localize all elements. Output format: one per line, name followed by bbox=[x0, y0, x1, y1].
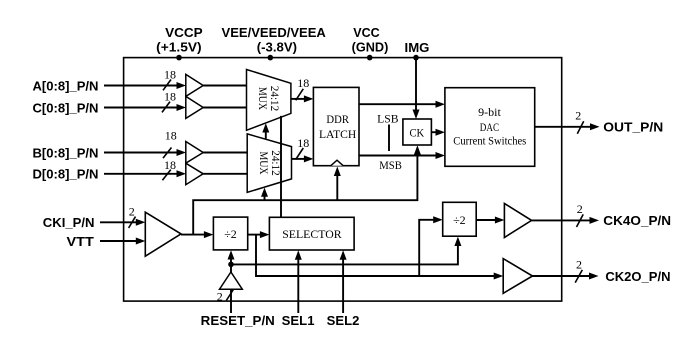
buffer B bbox=[186, 142, 203, 164]
svg-text:SEL1: SEL1 bbox=[282, 313, 315, 328]
wire reset input stub bbox=[230, 289, 232, 313]
DAC block 9-bit DAC Current Switches bbox=[445, 88, 535, 167]
svg-text:D[0:8]_P/N: D[0:8]_P/N bbox=[33, 167, 99, 182]
buffer U7 reset input bbox=[220, 264, 243, 289]
svg-text:SEL2: SEL2 bbox=[327, 313, 360, 328]
svg-text:÷2: ÷2 bbox=[224, 227, 237, 241]
wire CK to DAC bbox=[431, 129, 445, 136]
block CK bbox=[403, 119, 432, 145]
wire IMG vertical to CK clock input bbox=[413, 58, 420, 119]
svg-text:MUX: MUX bbox=[257, 152, 271, 175]
svg-text:2: 2 bbox=[577, 202, 583, 216]
svg-text:(+1.5V): (+1.5V) bbox=[156, 39, 202, 54]
wire DDR latch clock arrow bbox=[334, 167, 341, 201]
wire input D bbox=[104, 170, 186, 177]
wire LSB bus DDR to DAC bbox=[359, 101, 445, 108]
selector block SELECTOR bbox=[269, 217, 354, 250]
svg-text:VCC: VCC bbox=[353, 25, 380, 40]
mux U2 24:12 MUX bbox=[247, 134, 291, 193]
wire div2A to SELECTOR bbox=[248, 231, 270, 238]
wire MUX1 output bus to DDR latch bbox=[291, 95, 314, 102]
svg-text:9-bit: 9-bit bbox=[478, 105, 501, 119]
node VCCP supply dot bbox=[176, 55, 182, 61]
node VCC supply dot bbox=[367, 55, 373, 61]
node IMG dot on rail bbox=[413, 55, 419, 61]
mux U1 24:12 MUX bbox=[247, 70, 291, 131]
wire CK4O output bbox=[532, 217, 599, 224]
wire MUX2 select (from clock line) bbox=[261, 188, 268, 201]
svg-text:Current Switches: Current Switches bbox=[453, 134, 526, 148]
wire div2A branch down to CK2O line bbox=[256, 235, 495, 276]
wire arrow into CK2O buffer bbox=[494, 273, 504, 280]
wire arrow into div2 B bbox=[433, 216, 443, 223]
wire MUX2 output bus to DDR latch bbox=[292, 155, 314, 162]
svg-text:CK: CK bbox=[410, 125, 425, 139]
svg-text:18: 18 bbox=[165, 129, 177, 143]
bus slash CK4O 2 bbox=[577, 202, 584, 227]
bus slash MUX1 out 18 bbox=[296, 76, 310, 100]
svg-text:2: 2 bbox=[575, 109, 581, 123]
wire input B bbox=[104, 149, 186, 156]
svg-text:18: 18 bbox=[297, 136, 309, 150]
svg-text:2: 2 bbox=[576, 258, 582, 272]
wire arrow into CK bottom bbox=[414, 145, 421, 155]
label VEE/VEED/VEEA bbox=[222, 25, 327, 54]
divider block div2 A bbox=[213, 217, 247, 250]
bus slash A with width 18 bbox=[163, 68, 176, 91]
svg-text:VEE/VEED/VEEA: VEE/VEED/VEEA bbox=[222, 25, 327, 40]
wire branch up to div2 B bbox=[419, 220, 434, 276]
svg-text:(GND): (GND) bbox=[352, 39, 389, 54]
buffer U5 CK4O output bbox=[504, 203, 531, 237]
bus slash CKI 2 bbox=[129, 204, 136, 228]
svg-text:DDR: DDR bbox=[326, 112, 349, 126]
buffer A bbox=[186, 74, 203, 96]
divider block div2 B bbox=[443, 202, 477, 236]
svg-text:IMG: IMG bbox=[405, 40, 430, 55]
wire CK2O output bbox=[533, 273, 599, 280]
wire buffer A to MUX1 bbox=[203, 85, 247, 87]
wire reset to div2B bbox=[231, 237, 461, 265]
svg-text:A[0:8]_P/N: A[0:8]_P/N bbox=[33, 78, 99, 93]
bus slash B with width 18 bbox=[163, 129, 177, 159]
svg-text:CK4O_P/N: CK4O_P/N bbox=[603, 213, 671, 228]
divider tick between LSB and MSB bbox=[388, 125, 390, 152]
wire MUX1 select (from clock line, behind MUX2) bbox=[262, 123, 269, 139]
wire input CKI bbox=[100, 219, 145, 226]
svg-text:DAC: DAC bbox=[480, 120, 499, 134]
svg-text:(-3.8V): (-3.8V) bbox=[257, 39, 297, 54]
svg-text:18: 18 bbox=[164, 68, 176, 82]
buffer U4 clock input bbox=[145, 212, 181, 256]
wire buffer B to MUX2 bbox=[203, 152, 247, 154]
wire input C bbox=[104, 104, 186, 111]
node VEE supply dot bbox=[268, 55, 274, 61]
svg-text:÷2: ÷2 bbox=[453, 213, 466, 227]
bus slash C with width 18 bbox=[162, 90, 176, 113]
wire SEL1 input bbox=[295, 250, 302, 313]
label VCCP bbox=[156, 25, 203, 54]
bus slash D with width 18 bbox=[162, 158, 176, 180]
svg-text:CK2O_P/N: CK2O_P/N bbox=[605, 269, 670, 284]
svg-text:C[0:8]_P/N: C[0:8]_P/N bbox=[33, 100, 99, 115]
wire OUT_P/N output bbox=[535, 123, 600, 130]
wire buffer C to MUX1 bbox=[203, 107, 247, 109]
buffer C bbox=[186, 96, 203, 118]
svg-text:OUT_P/N: OUT_P/N bbox=[603, 120, 663, 135]
wire div2B to CK4O buffer bbox=[476, 217, 504, 224]
svg-text:18: 18 bbox=[297, 76, 309, 90]
bus slash RESET 2 bbox=[217, 289, 234, 303]
svg-text:MSB: MSB bbox=[379, 158, 402, 172]
wire buffer D to MUX2 bbox=[203, 173, 247, 175]
svg-text:LATCH: LATCH bbox=[319, 127, 357, 141]
svg-text:B[0:8]_P/N: B[0:8]_P/N bbox=[33, 146, 99, 161]
svg-text:RESET_P/N: RESET_P/N bbox=[201, 313, 275, 328]
svg-text:LSB: LSB bbox=[377, 112, 398, 126]
node reset junction dot bbox=[228, 262, 234, 268]
wire clock buffer to divider bbox=[181, 231, 213, 238]
svg-text:2: 2 bbox=[129, 204, 135, 218]
svg-text:VTT: VTT bbox=[67, 234, 94, 249]
wire reset to div2A bbox=[228, 250, 235, 264]
svg-text:MUX: MUX bbox=[256, 87, 270, 110]
latch U3 DDR LATCH bbox=[313, 87, 359, 165]
svg-text:VCCP: VCCP bbox=[165, 25, 203, 40]
bus slash OUT 2 bbox=[575, 109, 583, 134]
buffer U6 CK2O output bbox=[503, 259, 532, 294]
svg-text:2: 2 bbox=[217, 289, 223, 303]
wire clock branch up bbox=[193, 153, 417, 235]
outer block boundary bbox=[124, 58, 562, 302]
buffer D bbox=[186, 163, 203, 185]
svg-text:18: 18 bbox=[164, 90, 176, 104]
svg-text:CKI_P/N: CKI_P/N bbox=[43, 215, 95, 230]
bus slash MUX2 out 18 bbox=[296, 136, 310, 160]
label VCC (GND) bbox=[352, 25, 389, 54]
wire input A bbox=[104, 82, 186, 89]
svg-text:18: 18 bbox=[164, 158, 176, 172]
wire SELECTOR to MUX1 select (drawn over MUX2) bbox=[280, 116, 282, 217]
bus slash CK2O 2 bbox=[575, 258, 582, 283]
wire MSB bus DDR to DAC bbox=[359, 152, 445, 159]
svg-text:SELECTOR: SELECTOR bbox=[282, 227, 341, 241]
wire input VTT bbox=[100, 238, 145, 245]
wire SEL2 input bbox=[340, 250, 347, 313]
